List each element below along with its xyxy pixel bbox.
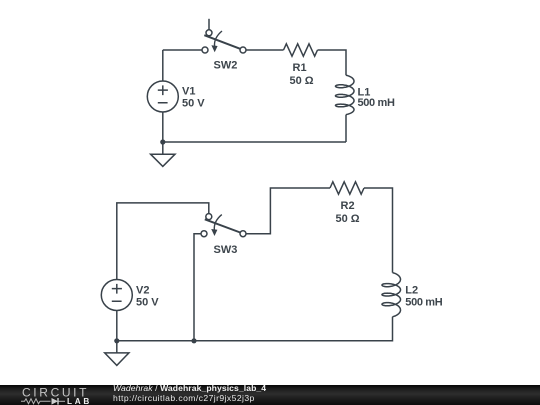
resistor R1 [284,44,318,56]
wire bottom rail top circuit [163,141,346,143]
svg-text:50 Ω: 50 Ω [290,75,314,87]
ground bottom circuit [105,341,129,366]
svg-text:LAB: LAB [67,396,89,405]
inductor L2 [382,273,401,317]
svg-text:SW3: SW3 [214,244,238,256]
svg-text:V1: V1 [182,86,195,98]
wire SW3 lower-left branch [194,234,201,341]
footer url line 2 [113,393,255,403]
svg-text:500 mH: 500 mH [358,97,395,109]
svg-text:R1: R1 [293,62,307,74]
wire top rail to SW2 left terminal [163,49,202,51]
wire V2 top [117,203,209,280]
wire V1 top [162,50,164,81]
svg-text:50 V: 50 V [136,297,159,309]
wire R2 to right rail [364,188,393,273]
node junction V2 ground [114,338,119,343]
svg-text:500 mH: 500 mH [405,297,442,309]
resistor R2 [330,182,364,194]
wire SW2 to R1 [246,49,284,51]
wire L1 bottom [345,115,347,142]
svg-text:L2: L2 [405,285,418,297]
switch SW3 [201,214,246,237]
wire SW3 right to R2 [246,188,330,234]
CircuitLab logo [0,385,100,405]
voltage source V1 [147,81,178,112]
voltage source V2 [101,280,132,311]
svg-text:50 Ω: 50 Ω [336,213,360,225]
wire V2 bottom [116,311,118,341]
svg-text:50 V: 50 V [182,98,205,110]
ground top circuit [151,142,175,166]
footer attribution line 1 [113,383,266,393]
switch SW2 [202,19,246,53]
wire L2 bottom and bottom rail [117,317,393,341]
svg-text:V2: V2 [136,285,149,297]
wire R1 to top-right corner [318,50,347,75]
wire V1 bottom to ground node [162,112,164,142]
node junction top circuit [160,139,165,144]
inductor L1 [336,75,355,114]
svg-text:R2: R2 [341,200,355,212]
node junction lower branch [191,338,196,343]
svg-text:SW2: SW2 [214,60,238,72]
footer bar [0,385,540,405]
